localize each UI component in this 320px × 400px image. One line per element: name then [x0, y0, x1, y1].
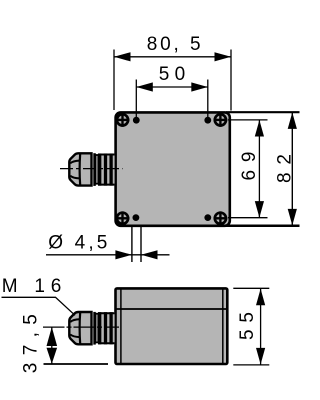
hex nut — [69, 153, 91, 185]
arrowheads Ø 4,5 — [115, 250, 131, 259]
ribbed section backdrop — [98, 154, 115, 186]
dimension 55 — [233, 288, 269, 365]
dimension 50 — [136, 80, 208, 121]
dimension 37,5 — [44, 327, 109, 364]
lid seam line — [116, 308, 228, 310]
dimension 80,5 — [114, 50, 231, 111]
groove — [95, 314, 98, 343]
centerline side view — [43, 326, 119, 328]
cable gland side view — [69, 312, 114, 345]
mounting holes (dots) — [133, 117, 212, 221]
arrowheads 50 — [136, 82, 153, 91]
arrowheads 37,5 — [47, 327, 58, 346]
screw slots (cross marks) — [116, 113, 228, 225]
enclosure top view body — [116, 112, 230, 225]
arrowheads 80,5 — [114, 52, 131, 61]
enclosure side view body — [116, 288, 229, 364]
leader line M 16 — [2, 297, 76, 315]
arrowheads 69 — [255, 120, 264, 137]
corner screws — [117, 114, 226, 224]
arrowheads 55 — [256, 289, 265, 306]
svg-text:Ø 4,5: Ø 4,5 — [48, 233, 107, 254]
svg-text:80,: 80, — [147, 34, 179, 55]
washer ring — [93, 312, 96, 345]
centerline top view — [60, 168, 123, 170]
lid flange line right — [222, 289, 224, 365]
dimension Ø 4,5 — [46, 227, 170, 263]
svg-text:5: 5 — [190, 34, 201, 55]
dimension 69 — [228, 120, 268, 218]
ribbed section backdrop — [98, 312, 115, 344]
cable gland top view — [69, 153, 114, 186]
dimension 82 — [226, 112, 300, 226]
arrowheads 82 — [288, 112, 297, 128]
washer ring — [93, 153, 96, 186]
hex nut — [69, 312, 91, 344]
lid flange line left — [120, 289, 122, 365]
groove — [95, 155, 98, 184]
